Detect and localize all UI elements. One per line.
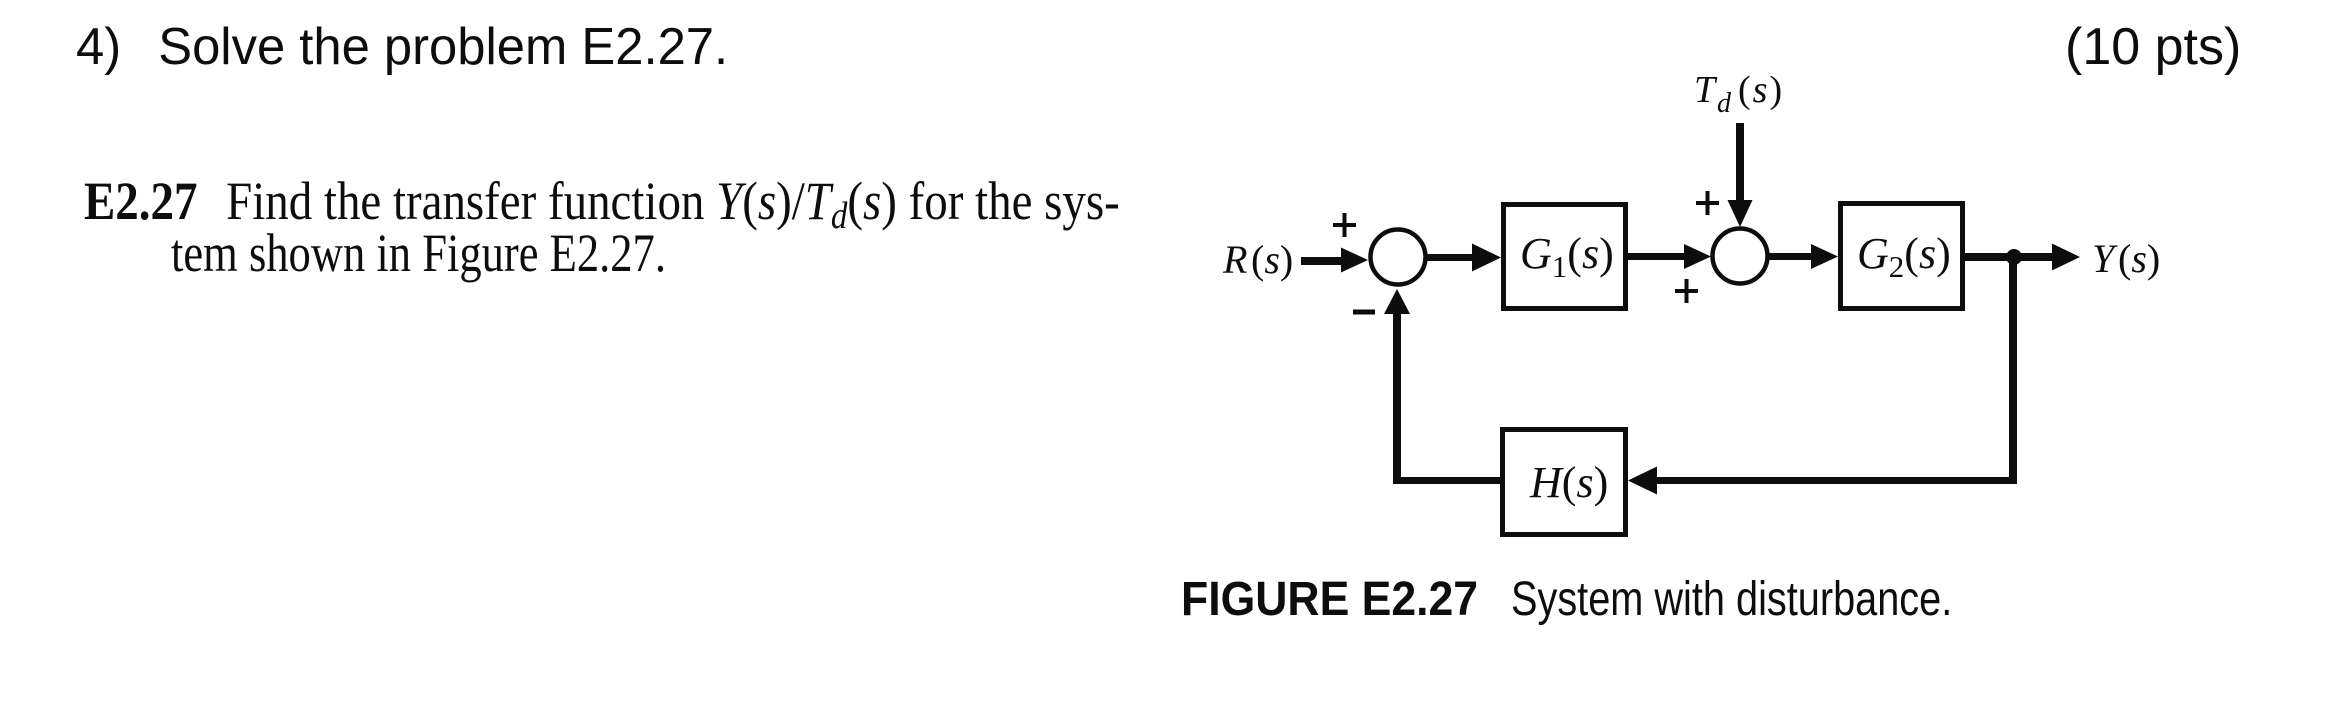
wire output node down to feedback line bbox=[2009, 257, 2017, 484]
wire G2 to output with arrowhead to Y(s) bbox=[1965, 244, 2080, 271]
summing junction S1 bbox=[1371, 230, 1426, 285]
svg-text:d: d bbox=[1717, 88, 1732, 119]
svg-text:G2(s): G2(s) bbox=[1857, 229, 1951, 284]
block G2 bbox=[1841, 204, 1963, 309]
plus sign at S1 input bbox=[1333, 213, 1356, 237]
points label bbox=[2065, 21, 2241, 73]
svg-text:G1(s): G1(s) bbox=[1520, 229, 1614, 284]
figure caption bold part bbox=[1181, 576, 1478, 624]
wire H to left vertical feedback segment bbox=[1393, 477, 1500, 484]
wire G1 to summing junction S2 with arrowhead bbox=[1628, 244, 1711, 269]
plus sign at S2 left-lower input bbox=[1675, 279, 1698, 303]
svg-text:(s): (s) bbox=[1251, 237, 1293, 282]
wire R(s) input arrow into summing junction S1 bbox=[1301, 248, 1368, 273]
exercise text line 1 bbox=[84, 174, 1120, 228]
output node junction dot bbox=[2006, 249, 2022, 265]
svg-text:R: R bbox=[1222, 237, 1247, 282]
svg-text:(s): (s) bbox=[1738, 69, 1784, 111]
exercise text line 2 bbox=[171, 226, 666, 280]
svg-text:Y: Y bbox=[2092, 236, 2118, 281]
svg-text:T: T bbox=[1694, 69, 1718, 111]
svg-text:H(s): H(s) bbox=[1529, 458, 1608, 507]
wire S1 to G1 with arrowhead bbox=[1426, 244, 1501, 272]
heading: problem number and title bbox=[76, 21, 728, 73]
wire S2 to G2 with arrowhead bbox=[1768, 244, 1838, 269]
figure caption regular part bbox=[1511, 576, 1952, 624]
minus sign at S1 feedback input bbox=[1353, 310, 1375, 315]
wire feedback up into S1 with arrowhead bbox=[1384, 289, 1410, 482]
wire feedback right segment with arrowhead into H bbox=[1628, 467, 2013, 495]
wire Td(s) disturbance arrow down into S2 bbox=[1728, 123, 1753, 227]
node Td(s) label bbox=[1694, 69, 1784, 119]
block G1 bbox=[1504, 205, 1626, 309]
node Y(s) label bbox=[2092, 236, 2160, 281]
block H bbox=[1503, 430, 1626, 535]
plus sign at S2 top input bbox=[1696, 191, 1719, 215]
svg-text:(s): (s) bbox=[2118, 236, 2160, 281]
summing junction S2 bbox=[1713, 229, 1768, 284]
node R(s) label bbox=[1222, 237, 1293, 282]
